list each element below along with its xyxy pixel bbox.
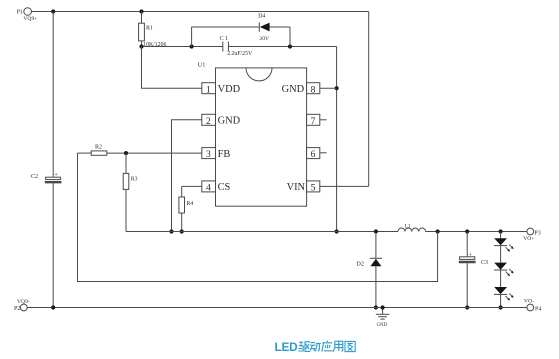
ground symbol bbox=[376, 305, 390, 327]
svg-text:GND: GND bbox=[218, 116, 241, 127]
wire: FB net to pin 3 bbox=[126, 152, 202, 154]
resistor R1 bbox=[139, 12, 167, 48]
wire: output sense line (R2 left leg, bottom run, tap up to rail) bbox=[78, 153, 438, 281]
svg-text:VO-: VO- bbox=[524, 298, 534, 304]
junction: D4 branch right bbox=[288, 44, 292, 48]
wire: switch-node rail (L1 to P3) bbox=[426, 231, 527, 233]
capacitor C3 bbox=[459, 232, 488, 308]
svg-text:LED: LED bbox=[275, 340, 299, 354]
svg-text:C 1: C 1 bbox=[220, 36, 229, 42]
svg-text:C3: C3 bbox=[481, 260, 488, 266]
wire: bottom ground rail P2 to P4 bbox=[27, 307, 527, 309]
pin 8 box bbox=[282, 83, 320, 96]
wire: LED1 to LED2 bbox=[500, 246, 502, 263]
svg-text:D2: D2 bbox=[356, 261, 364, 268]
pin 5 box bbox=[287, 181, 320, 194]
pin 7 box bbox=[307, 114, 327, 127]
wire: VDD rail (C1 right to pin8 column) bbox=[228, 46, 336, 48]
svg-text:VO+: VO+ bbox=[523, 236, 534, 242]
svg-text:4: 4 bbox=[206, 183, 211, 194]
svg-text:P3: P3 bbox=[534, 230, 540, 236]
svg-text:D4: D4 bbox=[258, 14, 265, 20]
inductor L1 bbox=[398, 224, 426, 232]
pin 3 box bbox=[202, 148, 231, 161]
svg-text:20V: 20V bbox=[259, 36, 269, 42]
svg-text:CS: CS bbox=[218, 182, 231, 193]
pin 2 box bbox=[202, 114, 241, 127]
svg-text:C2: C2 bbox=[31, 174, 38, 180]
svg-text:GND: GND bbox=[377, 323, 388, 328]
svg-text:R1: R1 bbox=[146, 26, 153, 32]
wire: VIN column down right side to pin 5 bbox=[368, 12, 370, 187]
op-amp U1 (IC body) bbox=[198, 62, 307, 207]
svg-text:2.2uF/25V: 2.2uF/25V bbox=[227, 51, 253, 57]
wire: LED2 to LED3 bbox=[500, 270, 502, 287]
connector P3 bbox=[523, 228, 541, 242]
junction: LED string / rail bbox=[499, 229, 503, 233]
junction: C2 / ground rail bbox=[51, 305, 55, 309]
junction: column / switch rail bbox=[335, 229, 339, 233]
svg-text:+: + bbox=[54, 171, 58, 178]
pin 6 box bbox=[307, 148, 327, 161]
svg-text:VIN: VIN bbox=[287, 182, 306, 193]
capacitor C1 bbox=[220, 36, 253, 57]
svg-text:3: 3 bbox=[206, 149, 211, 160]
resistor R4 bbox=[179, 186, 202, 231]
wire: switch-node rail (R3 corner to L1) bbox=[126, 231, 398, 233]
junction: D4 branch left bbox=[190, 44, 194, 48]
svg-text:VQ9-: VQ9- bbox=[17, 299, 30, 305]
svg-text:L1: L1 bbox=[404, 224, 410, 230]
junction: D2 / rail bbox=[374, 229, 378, 233]
svg-text:7: 7 bbox=[311, 116, 316, 127]
connector P1 bbox=[17, 8, 38, 22]
capacitor C2 bbox=[31, 12, 61, 308]
junction: top rail / R1 bbox=[139, 9, 143, 13]
svg-text:GND: GND bbox=[282, 84, 305, 95]
glyph 动 bbox=[310, 343, 321, 352]
svg-text:+: + bbox=[468, 251, 472, 258]
glyph 用 bbox=[333, 341, 343, 351]
svg-text:R4: R4 bbox=[186, 201, 193, 207]
diode D2 bbox=[356, 232, 382, 308]
LED 3 bbox=[494, 287, 513, 300]
pin 4 box bbox=[202, 181, 231, 194]
junction: ground column / switch rail bbox=[169, 229, 173, 233]
svg-text:P1: P1 bbox=[17, 9, 23, 15]
wire: LED3 to ground rail bbox=[500, 294, 502, 307]
junction: R1 bottom / pin1 branch bbox=[139, 44, 143, 48]
svg-text:2: 2 bbox=[206, 116, 211, 127]
svg-text:VDD: VDD bbox=[218, 84, 241, 95]
resistor R3 bbox=[123, 153, 137, 231]
svg-text:U1: U1 bbox=[198, 62, 206, 69]
glyph 应 bbox=[322, 341, 333, 352]
svg-text:6: 6 bbox=[311, 149, 316, 160]
wire: VDD rail (R1 bottom to C1 left) bbox=[142, 46, 223, 48]
wire: pin 8 lead bbox=[320, 87, 337, 89]
wire: VDD rail to pin 1 bbox=[142, 47, 202, 89]
wire: top rail from P1 to VIN column bbox=[31, 11, 368, 13]
junction: LED string / ground rail bbox=[499, 305, 503, 309]
svg-text:R2: R2 bbox=[95, 145, 102, 151]
connector P2 bbox=[14, 299, 30, 312]
junction: R4 / switch rail bbox=[180, 229, 184, 233]
glyph 驱 bbox=[298, 342, 310, 352]
junction: C3 / ground rail bbox=[465, 305, 469, 309]
glyph 图 bbox=[345, 341, 355, 351]
junction: C3 / rail bbox=[465, 229, 469, 233]
junction: pin 8 tap bbox=[335, 86, 339, 90]
junction: FB / R3 top bbox=[124, 151, 128, 155]
svg-text:FB: FB bbox=[218, 149, 231, 160]
svg-text:P2: P2 bbox=[14, 306, 20, 312]
connector P4 bbox=[524, 298, 541, 312]
svg-text:8: 8 bbox=[311, 84, 316, 95]
svg-text:R3: R3 bbox=[131, 177, 138, 183]
wire: pin 2 GND to ground column bbox=[172, 120, 202, 232]
svg-text:P4: P4 bbox=[535, 306, 541, 312]
junction: D2 anode / ground rail bbox=[374, 305, 378, 309]
resistor R2 bbox=[78, 145, 127, 156]
wire: column from VDD rail down past pin 8 to switch rail bbox=[336, 47, 338, 232]
svg-text:1: 1 bbox=[206, 84, 211, 95]
zener diode D4 bbox=[192, 14, 290, 47]
junction: sense tap / rail bbox=[436, 229, 440, 233]
wire: pin 5 VIN lead bbox=[320, 185, 369, 187]
caption: LED 驱动应用图 bbox=[275, 340, 356, 354]
junction: top rail / C2 branch bbox=[51, 9, 55, 13]
svg-text:VQ9+: VQ9+ bbox=[23, 16, 37, 22]
svg-text:5: 5 bbox=[311, 183, 316, 194]
LED 2 bbox=[494, 263, 513, 276]
LED 1 bbox=[494, 232, 513, 252]
pin 1 box bbox=[202, 83, 241, 96]
